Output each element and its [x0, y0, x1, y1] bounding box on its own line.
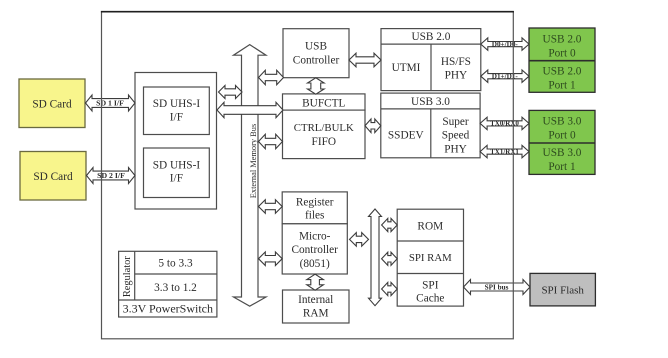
- wire HS/FS PHY to USB 2.0 Port 1: [481, 70, 529, 82]
- svg-text:USB 2.0: USB 2.0: [543, 66, 582, 78]
- USB 3.0 PHY block: [381, 93, 480, 158]
- SD card slot 1 box: [19, 79, 85, 128]
- svg-text:Register: Register: [296, 196, 334, 208]
- wire CTRL/BULK FIFO to USB 3.0 block: [365, 119, 381, 133]
- svg-text:SSDEV: SSDEV: [388, 130, 425, 142]
- svg-text:SD Card: SD Card: [32, 98, 72, 110]
- svg-text:SD 1 I/F: SD 1 I/F: [96, 99, 124, 108]
- svg-text:USB 3.0: USB 3.0: [543, 147, 582, 159]
- svg-text:3.3V PowerSwitch: 3.3V PowerSwitch: [123, 302, 213, 316]
- svg-text:ROM: ROM: [417, 221, 443, 233]
- svg-text:FIFO: FIFO: [312, 136, 337, 148]
- USB 3.0 ports block: [529, 110, 595, 174]
- SD UHS-I I/F block 2: [144, 148, 210, 198]
- USB 2.0 PHY block: [381, 29, 481, 91]
- svg-text:Port 1: Port 1: [548, 161, 575, 173]
- wire UHS container to memory bus: [219, 86, 243, 99]
- SD card slot 2 box: [20, 152, 86, 201]
- svg-text:5 to 3.3: 5 to 3.3: [158, 258, 193, 270]
- wire memory bus to Register files: [259, 200, 283, 214]
- ROM / SPI RAM / SPI Cache block: [397, 209, 463, 306]
- svg-text:Controller: Controller: [291, 244, 338, 256]
- wire arbiter to ROM: [382, 218, 398, 231]
- svg-text:Micro-: Micro-: [299, 231, 331, 243]
- wire USB Controller to BUFCTL: [308, 78, 325, 94]
- wire SPI Cache to SPI Flash: [464, 280, 531, 295]
- svg-text:UTMI: UTMI: [392, 62, 421, 74]
- svg-text:SD UHS-I: SD UHS-I: [153, 160, 201, 172]
- BUFCTL box: [283, 94, 366, 110]
- svg-text:External Memory Bus: External Memory Bus: [249, 124, 258, 198]
- wire Micro-Controller to Internal RAM: [307, 274, 324, 290]
- svg-text:PHY: PHY: [444, 144, 467, 156]
- svg-text:SPI: SPI: [422, 280, 439, 292]
- svg-text:SD Card: SD Card: [33, 171, 73, 183]
- svg-text:USB 3.0: USB 3.0: [543, 116, 582, 128]
- svg-text:CTRL/BULK: CTRL/BULK: [294, 122, 354, 134]
- svg-text:SPI Flash: SPI Flash: [541, 284, 584, 296]
- SPI Flash box: [530, 273, 595, 306]
- svg-text:SPI bus: SPI bus: [485, 283, 509, 291]
- wire Super Speed PHY to USB 3.0 Port 0: [480, 117, 529, 129]
- svg-text:SPI RAM: SPI RAM: [409, 252, 452, 264]
- SD UHS-I I/F block 1: [144, 87, 210, 135]
- wire memory bus to CTRL/BULK FIFO: [259, 134, 283, 148]
- wire arbiter to SPI Cache: [382, 282, 398, 295]
- memory arbiter vertical bus arrow: [369, 209, 382, 306]
- svg-text:Port 0: Port 0: [548, 130, 576, 142]
- wire Micro-Controller to arbiter: [350, 233, 369, 247]
- svg-text:RAM: RAM: [303, 307, 329, 319]
- svg-text:TX0/RX0: TX0/RX0: [490, 120, 519, 128]
- wire SD2 to UHS container: [87, 168, 136, 184]
- USB Controller box: [283, 29, 349, 78]
- svg-text:Regulator: Regulator: [122, 256, 133, 298]
- svg-text:3.3 to 1.2: 3.3 to 1.2: [154, 282, 197, 294]
- wire Super Speed PHY to USB 3.0 Port 1: [480, 145, 529, 157]
- svg-text:files: files: [305, 210, 324, 222]
- svg-text:USB: USB: [305, 40, 327, 52]
- svg-text:D1+/D1-: D1+/D1-: [492, 73, 519, 81]
- svg-text:I/F: I/F: [170, 111, 183, 123]
- SD interface container box: [135, 73, 217, 210]
- chip boundary frame: [102, 12, 514, 339]
- svg-text:PHY: PHY: [445, 69, 468, 81]
- Internal RAM box: [283, 290, 350, 323]
- svg-text:I/F: I/F: [170, 173, 183, 185]
- svg-text:(8051): (8051): [300, 258, 330, 270]
- Register files box: [282, 192, 347, 224]
- svg-text:USB 2.0: USB 2.0: [543, 33, 582, 45]
- USB 2.0 ports block: [529, 28, 595, 92]
- svg-text:TX1/RX1: TX1/RX1: [490, 148, 519, 156]
- wire arbiter to SPI RAM: [382, 252, 398, 265]
- svg-text:Port 1: Port 1: [548, 80, 575, 92]
- svg-text:D0+/D0-: D0+/D0-: [492, 40, 519, 48]
- CTRL/BULK FIFO box: [283, 110, 366, 159]
- svg-text:USB 2.0: USB 2.0: [411, 31, 450, 43]
- svg-text:Super: Super: [442, 116, 469, 128]
- Regulator block: [119, 251, 217, 317]
- svg-text:Internal: Internal: [298, 294, 333, 306]
- svg-text:SD UHS-I: SD UHS-I: [153, 98, 201, 110]
- Micro-Controller 8051 box: [282, 224, 347, 274]
- External Memory Bus arrow: [234, 45, 267, 307]
- svg-text:Controller: Controller: [293, 54, 340, 66]
- svg-text:USB 3.0: USB 3.0: [411, 96, 450, 108]
- svg-text:Cache: Cache: [416, 293, 444, 305]
- wire memory bus to Micro-Controller: [259, 252, 283, 266]
- wire memory bus to USB Controller: [259, 70, 284, 84]
- svg-text:Speed: Speed: [442, 130, 470, 142]
- svg-text:HS/FS: HS/FS: [441, 56, 471, 68]
- svg-text:BUFCTL: BUFCTL: [302, 97, 345, 109]
- wire USB Controller to USB 2.0 block: [349, 53, 381, 67]
- svg-text:Port 0: Port 0: [548, 47, 576, 59]
- wire SD1 to UHS container: [86, 95, 136, 111]
- wire HS/FS PHY to USB 2.0 Port 0: [481, 38, 529, 50]
- wire UHS container to BUFCTL: [217, 102, 283, 117]
